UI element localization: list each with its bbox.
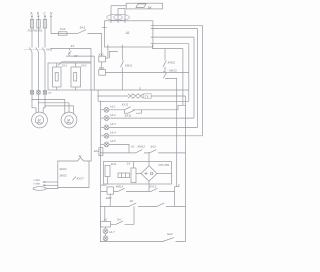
contact ET xyxy=(68,44,78,58)
svg-text:ЭК02: ЭК02 xyxy=(59,167,67,171)
wire row above thermal box xyxy=(51,48,92,50)
svg-text:КУ27: КУ27 xyxy=(77,177,84,181)
svg-text:КК: КК xyxy=(130,199,134,203)
wire A2 feed xyxy=(104,206,106,221)
svg-text:ЭК02: ЭК02 xyxy=(59,173,67,177)
thermal relay enclosure box xyxy=(48,63,91,90)
wire A1 right pin 3 xyxy=(153,36,194,38)
node 1A xyxy=(127,162,134,169)
svg-text:ХТ: ХТ xyxy=(47,91,52,95)
rail R4 xyxy=(193,37,195,118)
wire HL4 branch xyxy=(109,134,202,136)
thermal relay KK1 xyxy=(53,63,68,90)
node A label xyxy=(29,12,33,19)
fuse FU1 xyxy=(30,20,33,29)
flag node 92 xyxy=(78,157,84,161)
wire HL2 branch xyxy=(109,117,194,119)
contact row KK xyxy=(101,199,186,206)
wire A1 bottom pin 3 xyxy=(152,47,183,49)
svg-text:НL5: НL5 xyxy=(110,139,116,143)
svg-text:SА1: SА1 xyxy=(80,25,86,29)
lamp rail xyxy=(100,101,102,241)
wire right edge drop xyxy=(90,49,92,64)
lamp HL2 xyxy=(101,113,116,121)
sensor BK box xyxy=(126,3,162,9)
motor M1 xyxy=(32,112,48,128)
node B label xyxy=(37,12,40,19)
wire branch 1 to motor M2 xyxy=(32,100,65,115)
wire phase B vertical top xyxy=(38,18,40,47)
wire third row with contact xyxy=(58,62,91,65)
svg-text:КУ11: КУ11 xyxy=(122,103,129,107)
wire HL1 branch with parallel contacts xyxy=(109,103,186,118)
svg-text:КМ1: КМ1 xyxy=(46,47,52,51)
wire neutral N xyxy=(51,18,58,33)
transformer TV feed xyxy=(97,90,99,101)
contact SA3 xyxy=(111,206,135,224)
rectifier UZ1 xyxy=(136,153,172,192)
svg-text:КМ22: КМ22 xyxy=(168,60,176,64)
rail R6 xyxy=(182,49,184,106)
wire top second rail xyxy=(118,7,125,9)
svg-text:КН2: КН2 xyxy=(101,183,107,187)
svg-text:SА4: SА4 xyxy=(167,232,173,236)
wire A1 top pin 1 xyxy=(110,6,112,21)
rail R7 xyxy=(185,96,187,242)
wire A1 right pin 2 xyxy=(153,28,198,30)
lamp rail feed xyxy=(98,100,189,102)
svg-text:М: М xyxy=(67,118,70,122)
long bus line xyxy=(91,89,189,91)
transformer TV xyxy=(98,94,185,99)
lamp HL3 xyxy=(101,122,116,130)
contact KU27 xyxy=(73,177,76,181)
svg-text:НL4: НL4 xyxy=(110,131,116,135)
node N label xyxy=(50,12,53,19)
svg-text:КУ12: КУ12 xyxy=(150,185,157,189)
wire N to switch xyxy=(67,33,78,35)
svg-text:А1: А1 xyxy=(125,31,130,35)
switch SA1 xyxy=(78,25,87,33)
svg-text:SА2: SА2 xyxy=(150,145,156,149)
svg-text:FU4: FU4 xyxy=(60,27,66,31)
fuse FU3 xyxy=(43,20,46,29)
svg-text:SА31: SА31 xyxy=(125,114,132,118)
relay KU1 box xyxy=(99,51,118,62)
motor M2 xyxy=(61,112,77,128)
svg-text:НL2: НL2 xyxy=(110,113,116,117)
wire phase C vertical top xyxy=(44,18,46,47)
svg-text:А2: А2 xyxy=(130,145,135,149)
rectifier unit box xyxy=(104,162,172,185)
wire A1 right pin 4 xyxy=(153,43,189,45)
bottom bus xyxy=(101,241,186,243)
thermal relay KK2 xyxy=(71,63,87,90)
control unit A2 xyxy=(101,218,111,227)
arrow to winding 2 xyxy=(33,183,58,187)
svg-text:ОУ2: ОУ2 xyxy=(81,64,87,68)
wire phase B middle xyxy=(38,52,40,91)
wire branch 2 to motor M2 xyxy=(39,103,70,112)
svg-text:КН1: КН1 xyxy=(111,162,117,166)
capacitor C1 xyxy=(131,168,136,183)
relay TN1 box xyxy=(99,62,106,75)
svg-text:КМ2: КМ2 xyxy=(106,196,112,200)
svg-text:КМ12: КМ12 xyxy=(138,145,146,149)
cable shield oval xyxy=(107,14,130,20)
lamp HL4 xyxy=(101,131,116,139)
wire branch 3 to motor M2 xyxy=(45,106,73,114)
resistor R1 xyxy=(118,173,130,178)
relay KN1 xyxy=(105,162,117,184)
wire TN1 long xyxy=(106,71,189,73)
wire sensor box feed xyxy=(89,90,91,161)
wire N branch to control xyxy=(88,34,102,57)
svg-text:КУ1: КУ1 xyxy=(99,53,105,57)
wire A1 top pin 3 xyxy=(124,8,126,20)
wire phase C middle xyxy=(44,52,46,91)
svg-text:SА: SА xyxy=(117,217,121,221)
svg-text:КПС-НВ4: КПС-НВ4 xyxy=(158,164,169,167)
svg-text:ВК: ВК xyxy=(148,5,152,9)
rail R3 xyxy=(196,29,198,126)
junction stub on bus xyxy=(139,87,141,90)
relay coil KN2 xyxy=(101,183,113,207)
wire row KM13 KU12 xyxy=(101,184,179,206)
svg-text:ЕА2: ЕА2 xyxy=(94,150,99,153)
contactor KM1 contacts xyxy=(25,47,53,52)
arrow to winding 1 xyxy=(33,179,58,183)
thermal sensor box xyxy=(58,154,89,188)
fuse FU4 xyxy=(58,27,67,35)
control row A2 KM12 SA2 xyxy=(101,145,186,153)
svg-text:КМ23: КМ23 xyxy=(169,69,177,73)
wire ST row xyxy=(66,55,94,57)
svg-text:НL3: НL3 xyxy=(110,122,116,126)
lamp HL5 xyxy=(101,139,116,147)
wire sensor feed drop xyxy=(93,56,95,90)
svg-text:НL7: НL7 xyxy=(109,230,115,234)
wire A1 bottom pin 1 xyxy=(106,47,108,58)
wire BK left xyxy=(111,5,126,7)
svg-text:FU1 FU2 FU3: FU1 FU2 FU3 xyxy=(28,29,43,33)
contact KM23 xyxy=(163,69,177,187)
lamp HL7 xyxy=(103,234,108,242)
svg-text:НL1: НL1 xyxy=(110,105,116,109)
contact KM21 xyxy=(121,47,133,90)
junction dots xyxy=(31,95,149,242)
lamp HL6 xyxy=(103,227,115,234)
svg-text:КМ21: КМ21 xyxy=(125,63,133,67)
lamp HL1 xyxy=(101,105,116,113)
fuse FU2 xyxy=(37,20,40,29)
wire phase A middle xyxy=(31,52,33,91)
wire A1 right pin 1 xyxy=(153,24,203,26)
svg-text:к обм: к обм xyxy=(33,183,40,186)
terminal XT1 xyxy=(30,91,52,95)
contact KM22 xyxy=(163,49,176,72)
switch SA4 xyxy=(163,232,175,241)
svg-text:М: М xyxy=(38,118,41,122)
svg-text:1А: 1А xyxy=(127,162,131,166)
svg-text:ОУ1: ОУ1 xyxy=(62,64,68,68)
node C label xyxy=(43,12,46,19)
rail R2 xyxy=(201,25,203,134)
common terminal oval xyxy=(33,187,58,191)
svg-text:КМ13: КМ13 xyxy=(116,184,124,188)
rail R5 xyxy=(188,44,190,102)
wire phase C to motor M1 xyxy=(43,94,45,113)
wire phase B to motor M1 xyxy=(38,94,40,112)
fuse FU5 on rail xyxy=(94,148,103,156)
wire HL3 branch xyxy=(109,126,197,128)
wire phase A vertical top xyxy=(31,18,33,47)
control unit A1 xyxy=(102,20,154,47)
wire phase A to motor M1 xyxy=(32,94,36,113)
wire HL5 down xyxy=(109,144,129,153)
svg-text:ЕТ: ЕТ xyxy=(71,44,75,48)
wire A1 top pin 2 xyxy=(117,8,119,20)
